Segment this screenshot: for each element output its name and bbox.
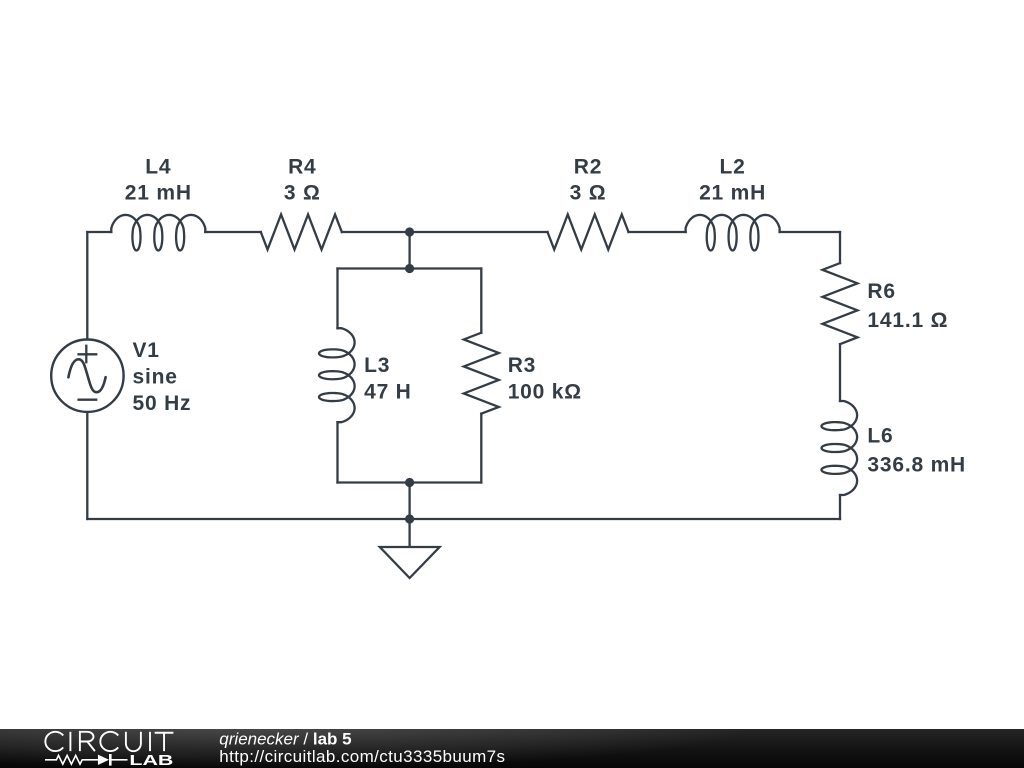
svg-text:L2: L2 [720,156,746,179]
svg-text:50 Hz: 50 Hz [133,392,192,415]
svg-text:100 kΩ: 100 kΩ [508,381,582,404]
svg-text:L4: L4 [145,156,171,179]
svg-text:21 mH: 21 mH [125,182,192,205]
svg-text:qrienecker / lab 5: qrienecker / lab 5 [219,729,351,748]
svg-text:L3: L3 [364,354,390,377]
svg-text:R2: R2 [574,156,602,179]
svg-text:3 Ω: 3 Ω [284,182,321,205]
svg-text:R6: R6 [867,280,895,303]
svg-text:LAB: LAB [129,752,173,768]
svg-text:336.8 mH: 336.8 mH [867,453,966,476]
svg-text:47 H: 47 H [364,381,412,404]
svg-text:L6: L6 [867,425,893,448]
svg-text:V1: V1 [133,339,160,362]
svg-text:3 Ω: 3 Ω [570,182,607,205]
svg-text:R3: R3 [508,354,536,377]
svg-text:sine: sine [133,366,178,389]
svg-text:141.1 Ω: 141.1 Ω [867,309,948,332]
svg-text:21 mH: 21 mH [699,182,766,205]
svg-text:R4: R4 [288,156,316,179]
svg-text:http://circuitlab.com/ctu3335b: http://circuitlab.com/ctu3335buum7s [219,747,505,766]
